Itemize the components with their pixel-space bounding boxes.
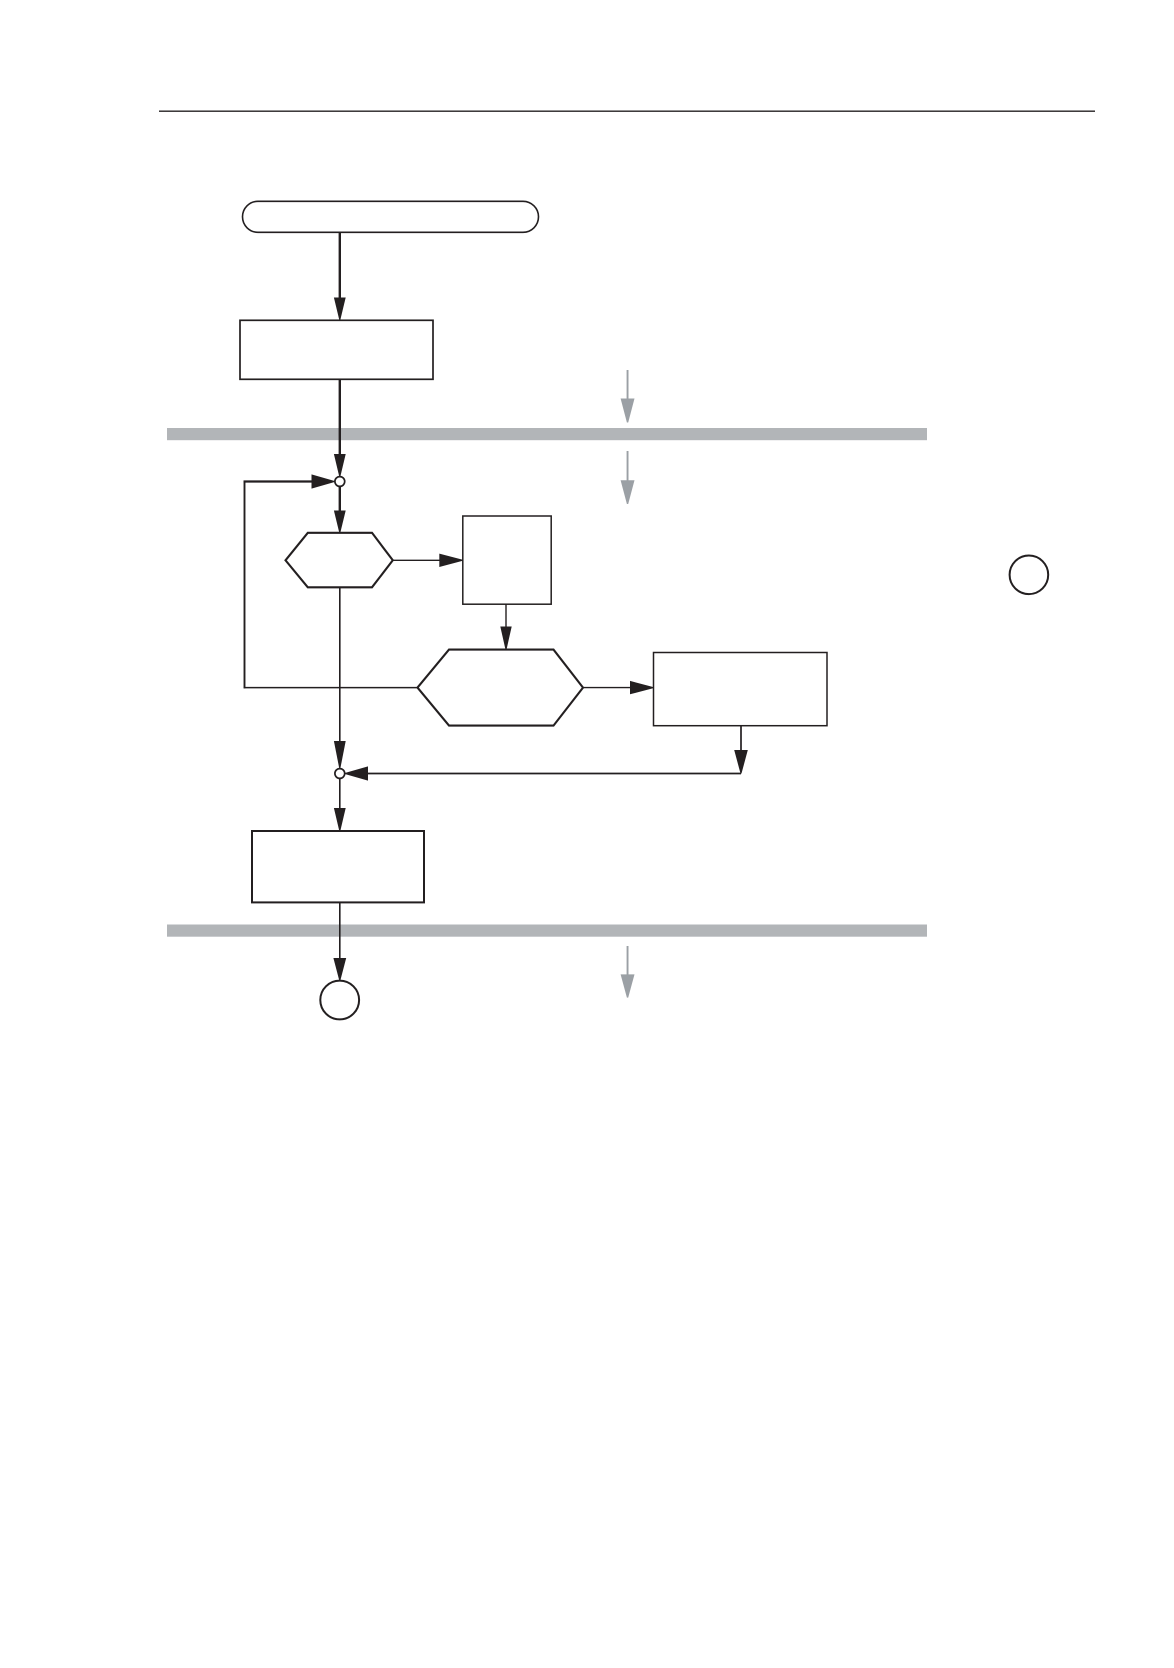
junction node 2 [335, 769, 345, 779]
wire: process 1 to junction 1 [339, 379, 341, 455]
end circle (terminal) [320, 981, 359, 1020]
wire: process box 3 to end circle [339, 902, 341, 959]
swimlane divider band 2 [167, 925, 927, 937]
wire: decision hexagon 1 bottom to junction 2 [339, 587, 341, 742]
wire: return line to junction 2 [367, 773, 741, 775]
wire: decision hexagon 1 to action square [393, 559, 441, 561]
arrowhead into decision hexagon 1 [334, 511, 346, 533]
wire: junction 1 to decision hexagon 1 [339, 486, 341, 512]
arrowhead into action square [439, 554, 463, 567]
arrowhead into junction 2 (from top) [334, 741, 346, 769]
arrowhead into process box 3 [334, 808, 346, 831]
gray flow arrow 3 (below band 2) [621, 946, 635, 998]
wire: loop back, horizontal into junction 1 [244, 480, 312, 482]
decision hexagon 2 [418, 650, 584, 726]
wire: process box 2 down [740, 726, 742, 752]
arrowhead into process box 2 [630, 681, 654, 694]
header rule [159, 110, 1095, 112]
arrowhead at corner above return line [734, 750, 748, 774]
junction node 1 [335, 477, 345, 487]
wire: decision hexagon 2 to process box 2 [583, 687, 631, 689]
gray flow arrow 2 (below band 1) [621, 451, 635, 504]
wire: loop back, vertical left margin segment [244, 481, 246, 689]
off-page connector circle (right) [1010, 556, 1049, 595]
gray flow arrow 1 (above band 1) [621, 370, 635, 423]
wire: junction 2 to process box 3 [339, 778, 341, 809]
action square [463, 516, 551, 604]
process box 1 [240, 320, 433, 379]
process box 2 [654, 653, 828, 726]
swimlane divider band 1 [167, 428, 927, 440]
arrowhead into junction 1 (from top) [334, 454, 346, 477]
arrowhead into process 1 [334, 298, 346, 321]
decision hexagon 1 [286, 533, 393, 588]
arrowhead into end circle [333, 958, 346, 981]
wire: loop back, hexagon 2 left vertex to left margin [244, 687, 418, 689]
arrowhead into junction 2 (from right) [345, 766, 368, 780]
wire: action square to decision hexagon 2 [505, 604, 507, 628]
arrowhead into junction 1 (from left) [312, 474, 335, 488]
arrowhead into decision hexagon 2 [500, 627, 511, 650]
process box 3 [252, 831, 424, 902]
wire: start to process 1 [339, 233, 341, 300]
terminator: start [243, 201, 539, 232]
